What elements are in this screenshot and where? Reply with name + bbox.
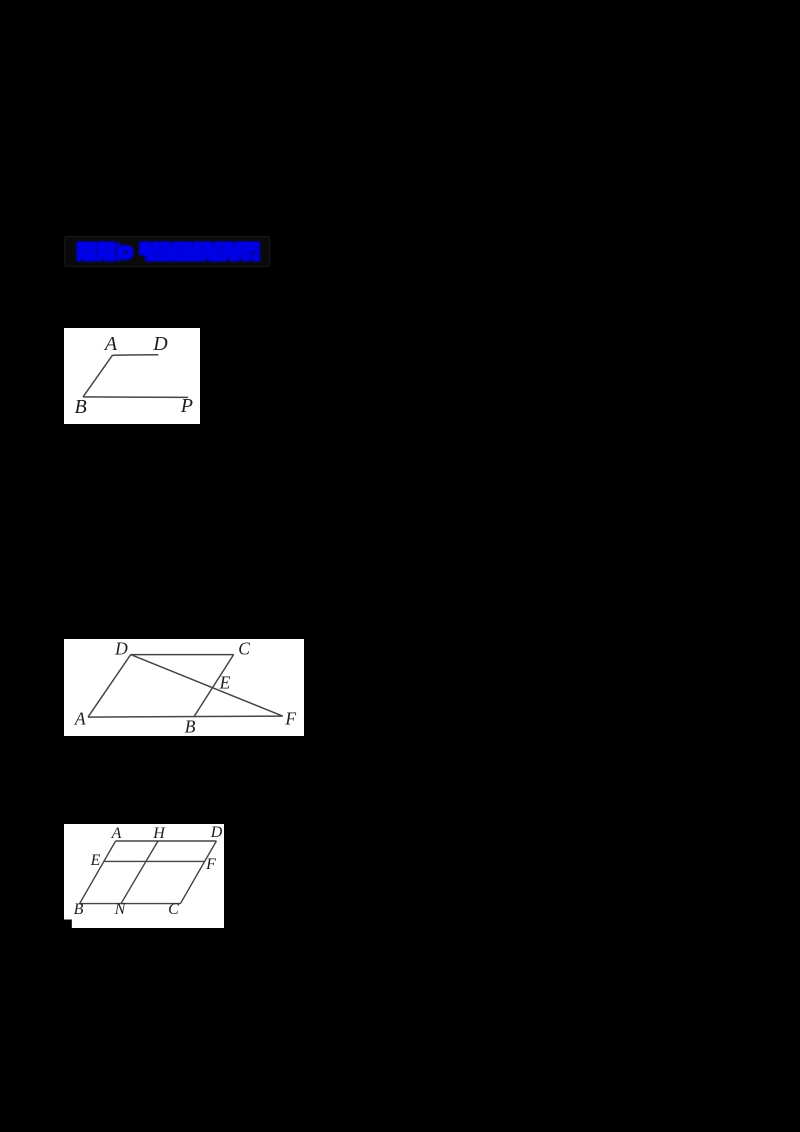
heading group2 top notch d xyxy=(212,242,215,245)
line DC xyxy=(180,841,216,904)
heading bottom notch b xyxy=(227,259,230,262)
heading group2 top notch e xyxy=(233,242,236,245)
heading halo rectangle xyxy=(65,237,270,267)
line DC xyxy=(131,654,234,656)
figure 3 white box xyxy=(64,824,224,928)
heading char2 vertical crease xyxy=(106,243,107,260)
heading bottom notch a xyxy=(206,259,209,262)
line AB xyxy=(80,841,116,904)
line EF xyxy=(104,860,205,862)
label E xyxy=(91,853,101,869)
label P xyxy=(181,396,193,416)
label H xyxy=(153,826,165,842)
label B xyxy=(74,902,84,918)
heading char2 bottom notch xyxy=(102,258,105,262)
line BC xyxy=(80,903,181,905)
heading digit 9 ring xyxy=(121,248,130,257)
heading char 2 xyxy=(97,242,116,262)
label F xyxy=(285,710,296,728)
label D xyxy=(211,825,223,841)
heading group2 stripe 3 xyxy=(147,254,259,256)
line AD xyxy=(116,840,217,842)
line AB xyxy=(83,355,113,397)
label F xyxy=(206,857,216,873)
label B xyxy=(185,718,196,736)
heading group2 crease e xyxy=(241,243,242,260)
line CB xyxy=(194,655,234,718)
heading group2 first char top xyxy=(139,242,145,256)
label D xyxy=(153,334,167,354)
heading char1 vertical crease xyxy=(86,243,87,260)
label C xyxy=(168,902,179,918)
label A xyxy=(75,710,86,728)
heading char1 bottom notch xyxy=(81,258,84,262)
label B xyxy=(74,397,86,417)
heading dark dot xyxy=(251,252,255,256)
line DF xyxy=(131,655,283,717)
label D xyxy=(115,640,128,658)
heading: blue bold title text xyxy=(60,230,280,274)
heading group2 crease c xyxy=(201,243,202,260)
figure 1 white box xyxy=(64,328,200,424)
label A xyxy=(112,826,122,842)
figure 2 white box xyxy=(64,639,304,736)
heading group2 crease b xyxy=(180,243,181,260)
label E xyxy=(220,674,231,692)
heading digit 1 xyxy=(117,243,121,262)
heading group2 stripe 2 xyxy=(147,250,259,252)
heading group2 top notch b xyxy=(171,242,174,245)
label C xyxy=(238,640,250,658)
heading group2 stripe 4 xyxy=(147,257,259,259)
heading group2 top notch c xyxy=(192,242,195,245)
line DA xyxy=(88,655,131,718)
heading bottom notch d xyxy=(250,259,253,262)
line AD xyxy=(113,354,159,357)
line HN xyxy=(121,841,158,904)
black notch bottom-left xyxy=(64,920,72,929)
heading group2 main blob xyxy=(145,242,260,262)
heading char 1 xyxy=(77,242,97,262)
heading bottom notch c xyxy=(240,259,243,262)
label N xyxy=(115,902,126,918)
heading group2 crease a xyxy=(160,243,161,260)
heading char1/2 inner slit xyxy=(78,251,114,252)
heading group2 top notch a xyxy=(150,242,153,245)
heading group2 crease d xyxy=(221,243,222,260)
line BP xyxy=(83,396,188,399)
heading group2 stripe 1 xyxy=(147,246,259,248)
label A xyxy=(105,334,117,354)
line AF xyxy=(88,716,283,717)
